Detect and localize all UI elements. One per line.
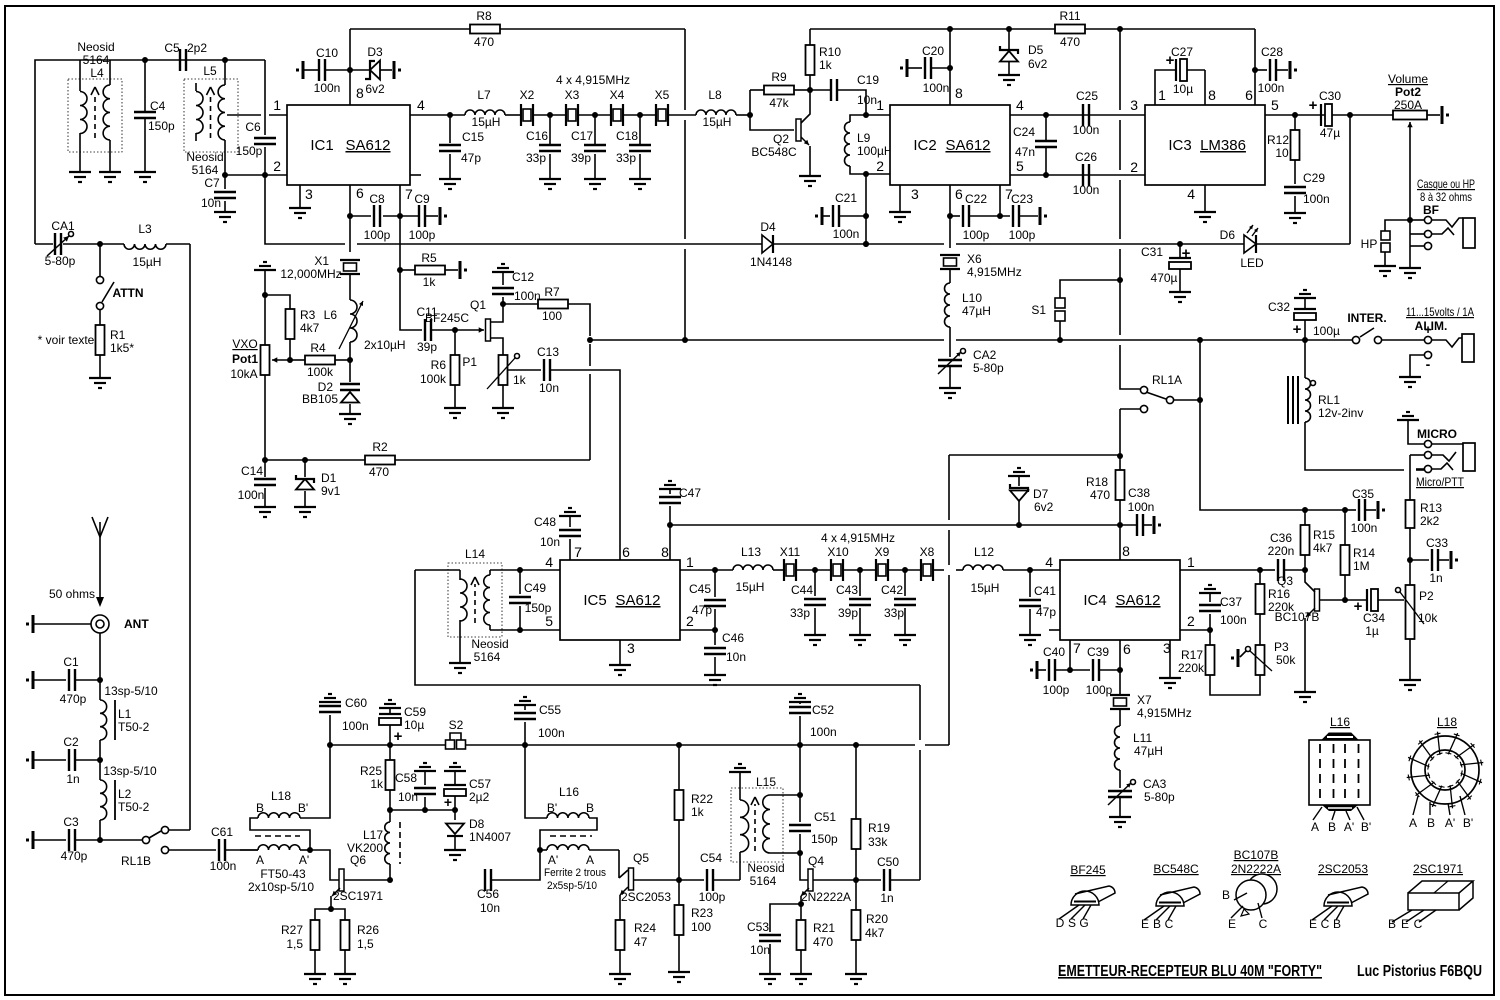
svg-text:8: 8 [1122,543,1130,559]
svg-text:L5: L5 [203,64,217,78]
svg-text:47n: 47n [1015,145,1035,159]
svg-text:C23: C23 [1011,192,1033,206]
svg-text:S: S [1068,916,1076,930]
svg-text:IC4: IC4 [1083,592,1106,609]
svg-text:B: B [1153,917,1161,931]
svg-text:33p: 33p [526,151,546,165]
svg-text:100p: 100p [963,228,990,242]
svg-text:100n: 100n [1303,192,1330,206]
svg-text:T50-2: T50-2 [118,720,150,734]
svg-text:1µ: 1µ [1365,624,1379,638]
svg-text:C4: C4 [150,99,166,113]
svg-text:33k: 33k [868,835,888,849]
svg-text:C43: C43 [836,583,858,597]
svg-text:A': A' [1344,820,1354,834]
svg-text:L4: L4 [90,66,104,80]
svg-text:A': A' [1445,816,1455,830]
svg-text:100µH: 100µH [857,144,893,158]
svg-text:C1: C1 [63,655,79,669]
svg-text:C52: C52 [812,703,834,717]
svg-text:MICRO: MICRO [1417,427,1457,441]
svg-text:C40: C40 [1043,645,1065,659]
svg-text:C21: C21 [835,191,857,205]
svg-text:R15: R15 [1313,528,1335,542]
svg-text:4: 4 [417,97,425,113]
svg-text:BC107B: BC107B [1234,848,1279,862]
svg-text:D4: D4 [760,220,776,234]
svg-text:A: A [1409,816,1417,830]
svg-text:1k5*: 1k5* [110,341,134,355]
svg-text:10k: 10k [1418,611,1438,625]
svg-text:Pot1: Pot1 [232,352,258,366]
svg-text:R5: R5 [421,251,437,265]
svg-text:12v-2inv: 12v-2inv [1318,406,1363,420]
svg-text:47µ: 47µ [1320,126,1340,140]
svg-text:E: E [1401,917,1409,931]
svg-text:R10: R10 [819,45,841,59]
svg-text:IC3: IC3 [1168,137,1191,154]
svg-text:100n: 100n [833,227,860,241]
svg-text:470: 470 [813,935,833,949]
svg-text:100n: 100n [1128,500,1155,514]
svg-text:10n: 10n [726,650,746,664]
svg-text:1k: 1k [370,777,384,791]
svg-text:Q1: Q1 [470,298,486,312]
svg-text:R1: R1 [110,328,126,342]
svg-text:2k2: 2k2 [1420,514,1440,528]
svg-text:100p: 100p [1009,228,1036,242]
svg-text:10n: 10n [857,93,877,107]
svg-text:R7: R7 [544,285,560,299]
svg-text:Micro/PTT: Micro/PTT [1416,475,1465,489]
svg-text:D5: D5 [1028,43,1044,57]
svg-text:B': B' [1361,820,1371,834]
svg-text:VK200: VK200 [347,841,383,855]
svg-text:BC548C: BC548C [751,145,797,159]
svg-text:L2: L2 [118,787,132,801]
svg-text:4,915MHz: 4,915MHz [1137,706,1192,720]
svg-text:R18: R18 [1086,475,1108,489]
svg-text:L17: L17 [363,828,383,842]
svg-text:8: 8 [661,544,669,560]
svg-text:39p: 39p [838,606,858,620]
svg-text:2SC1971: 2SC1971 [333,889,383,903]
svg-text:4 x 4,915MHz: 4 x 4,915MHz [556,73,630,87]
svg-text:C30: C30 [1319,89,1341,103]
svg-text:R6: R6 [431,358,447,372]
svg-text:5: 5 [1016,158,1024,174]
svg-text:D6: D6 [1220,228,1236,242]
svg-text:4,915MHz: 4,915MHz [967,265,1022,279]
svg-text:R22: R22 [691,792,713,806]
svg-text:C60: C60 [345,696,367,710]
svg-text:100n: 100n [923,81,950,95]
svg-text:B': B' [547,801,557,815]
svg-text:SA612: SA612 [615,592,660,609]
svg-text:C54: C54 [700,851,722,865]
svg-text:100p: 100p [364,228,391,242]
svg-text:1k: 1k [423,275,437,289]
svg-text:L10: L10 [962,291,982,305]
svg-text:D8: D8 [469,817,485,831]
svg-text:12,000MHz: 12,000MHz [280,267,341,281]
svg-text:C35: C35 [1352,487,1374,501]
svg-text:C46: C46 [722,631,744,645]
svg-text:C7: C7 [204,176,220,190]
svg-text:BF245C: BF245C [425,311,469,325]
svg-text:Q5: Q5 [633,851,649,865]
svg-text:CA1: CA1 [51,219,75,233]
svg-text:10n: 10n [750,943,770,957]
svg-text:47µH: 47µH [962,304,991,318]
svg-text:3: 3 [627,640,635,656]
svg-text:R13: R13 [1420,501,1442,515]
svg-text:A: A [586,853,594,867]
svg-text:L7: L7 [477,88,491,102]
svg-text:2: 2 [1130,159,1138,175]
svg-text:+: + [444,794,452,810]
svg-text:2: 2 [876,158,884,174]
svg-text:2SC2053: 2SC2053 [621,890,671,904]
svg-text:R26: R26 [357,923,379,937]
svg-text:3: 3 [1130,97,1138,113]
svg-text:1n: 1n [66,772,79,786]
svg-text:C: C [1414,917,1423,931]
svg-text:100p: 100p [409,228,436,242]
svg-text:C41: C41 [1034,584,1056,598]
svg-text:C13: C13 [537,345,559,359]
svg-text:R4: R4 [310,341,326,355]
svg-text:470: 470 [369,465,389,479]
svg-text:13sp-5/10: 13sp-5/10 [103,764,157,778]
svg-text:5: 5 [545,613,553,629]
svg-text:1: 1 [1158,87,1166,103]
svg-text:S2: S2 [449,718,464,732]
svg-text:1,5: 1,5 [357,937,374,951]
svg-text:2N2222A: 2N2222A [1231,862,1281,876]
svg-text:5164: 5164 [474,650,501,664]
svg-text:8: 8 [1208,87,1216,103]
svg-text:100n: 100n [1220,613,1247,627]
svg-text:Pot2: Pot2 [1395,85,1421,99]
svg-text:L12: L12 [974,545,994,559]
svg-text:3: 3 [305,186,313,202]
svg-text:8: 8 [356,85,364,101]
svg-text:4k7: 4k7 [1313,541,1333,555]
svg-text:2N2222A: 2N2222A [801,890,851,904]
svg-text:4 x 4,915MHz: 4 x 4,915MHz [821,531,895,545]
svg-text:Q3: Q3 [1277,574,1293,588]
svg-text:R16: R16 [1268,587,1290,601]
svg-text:A': A' [299,853,309,867]
svg-text:C56: C56 [477,887,499,901]
svg-text:1: 1 [273,97,281,113]
svg-text:2x10sp-5/10: 2x10sp-5/10 [248,880,314,894]
svg-text:L11: L11 [1133,731,1152,745]
svg-text:6: 6 [356,185,364,201]
svg-text:+: + [1354,598,1363,615]
svg-text:100n: 100n [314,81,341,95]
svg-text:470p: 470p [61,849,88,863]
svg-text:100n: 100n [538,726,565,740]
svg-text:C9: C9 [414,192,430,206]
svg-text:B: B [586,801,594,815]
svg-text:Neosid: Neosid [186,150,223,164]
svg-text:R11: R11 [1059,9,1080,23]
svg-text:5164: 5164 [83,53,110,67]
svg-text:+: + [1166,52,1175,69]
svg-text:13sp-5/10: 13sp-5/10 [104,684,158,698]
svg-text:470p: 470p [60,692,87,706]
svg-text:39p: 39p [417,340,437,354]
svg-text:C22: C22 [965,192,987,206]
svg-text:R20: R20 [866,912,888,926]
svg-text:2x10µH: 2x10µH [364,338,406,352]
svg-text:B: B [1222,888,1230,902]
svg-text:C3: C3 [63,815,79,829]
svg-text:100n: 100n [1258,81,1285,95]
svg-text:R27: R27 [281,923,303,937]
svg-text:C18: C18 [616,129,638,143]
svg-text:C25: C25 [1076,89,1098,103]
svg-text:Q4: Q4 [808,854,824,868]
svg-text:X9: X9 [875,545,890,559]
svg-text:C34: C34 [1363,611,1385,625]
svg-text:C12: C12 [512,270,534,284]
svg-text:1M: 1M [1353,559,1370,573]
svg-text:X4: X4 [610,88,625,102]
svg-text:Neosid: Neosid [747,861,784,875]
svg-text:C50: C50 [877,855,899,869]
svg-text:C8: C8 [369,192,385,206]
svg-text:C10: C10 [316,46,338,60]
svg-text:6: 6 [1123,641,1131,657]
svg-text:10n: 10n [480,901,500,915]
svg-text:7: 7 [1073,640,1081,656]
svg-text:R21: R21 [813,921,835,935]
svg-text:Q2: Q2 [773,132,789,146]
svg-text:C44: C44 [791,583,813,597]
svg-text:250A: 250A [1394,98,1422,112]
svg-text:B: B [256,801,264,815]
svg-text:D7: D7 [1033,487,1049,501]
svg-text:C: C [1321,917,1330,931]
svg-text:B: B [1427,816,1435,830]
svg-text:10n: 10n [201,196,221,210]
svg-text:100n: 100n [342,719,369,733]
svg-text:4: 4 [545,554,553,570]
svg-text:L18: L18 [1437,715,1457,729]
svg-text:R17: R17 [1181,648,1203,662]
svg-text:1,5: 1,5 [286,937,303,951]
svg-text:ALIM.: ALIM. [1415,319,1448,333]
svg-text:100n: 100n [1073,183,1100,197]
svg-text:A: A [1311,820,1319,834]
svg-text:L3: L3 [138,222,152,236]
svg-text:CA3: CA3 [1143,777,1167,791]
svg-text:BC548C: BC548C [1153,862,1199,876]
svg-text:47p: 47p [1036,605,1056,619]
svg-text:C55: C55 [539,703,561,717]
svg-text:1: 1 [686,554,694,570]
svg-text:HP: HP [1361,237,1378,251]
svg-text:1: 1 [1187,554,1195,570]
svg-text:2: 2 [273,158,281,174]
svg-text:Q6: Q6 [350,853,366,867]
svg-text:BC107B: BC107B [1275,610,1320,624]
svg-text:INTER.: INTER. [1347,311,1386,325]
svg-text:C38: C38 [1128,486,1150,500]
svg-text:7: 7 [405,186,413,202]
svg-text:50k: 50k [1276,653,1296,667]
svg-text:R12: R12 [1267,133,1289,147]
svg-text:33p: 33p [884,606,904,620]
svg-text:C33: C33 [1426,536,1448,550]
svg-text:470: 470 [1060,35,1080,49]
svg-text:100n: 100n [210,859,237,873]
svg-text:C24: C24 [1013,125,1035,139]
svg-text:C57: C57 [469,777,491,791]
svg-text:R23: R23 [691,906,713,920]
svg-text:X2: X2 [520,88,535,102]
svg-text:8 à 32 ohms: 8 à 32 ohms [1420,190,1472,204]
svg-text:FT50-43: FT50-43 [260,867,306,881]
svg-text:D: D [1056,916,1065,930]
svg-text:100: 100 [691,920,711,934]
svg-text:C48: C48 [534,515,556,529]
svg-text:E: E [1228,917,1236,931]
svg-text:C61: C61 [211,825,233,839]
svg-text:T50-2: T50-2 [118,800,150,814]
svg-text:C53: C53 [747,920,769,934]
svg-text:150p: 150p [236,144,263,158]
svg-text:BF245: BF245 [1070,863,1106,877]
svg-text:D3: D3 [367,45,383,59]
svg-text:L16: L16 [559,785,579,799]
svg-text:100p: 100p [1086,683,1113,697]
svg-text:CA2: CA2 [973,348,997,362]
svg-text:-: - [1426,356,1431,372]
svg-text:1k: 1k [513,373,527,387]
svg-text:4k7: 4k7 [865,926,885,940]
svg-text:10µ: 10µ [404,718,424,732]
svg-text:R19: R19 [868,821,890,835]
svg-text:15µH: 15µH [472,115,501,129]
svg-text:47: 47 [634,935,648,949]
svg-text:X7: X7 [1137,693,1152,707]
svg-text:47k: 47k [769,96,789,110]
svg-text:100n: 100n [1351,521,1378,535]
svg-text:220k: 220k [1178,661,1205,675]
svg-text:L8: L8 [708,88,722,102]
svg-text:50 ohms: 50 ohms [49,587,95,601]
svg-text:L1: L1 [118,707,132,721]
svg-text:X1: X1 [314,254,329,268]
svg-text:C15: C15 [462,130,484,144]
svg-text:C39: C39 [1087,645,1109,659]
svg-text:X10: X10 [827,545,849,559]
svg-text:C45: C45 [689,582,711,596]
svg-text:5: 5 [1271,97,1279,113]
svg-text:39p: 39p [571,151,591,165]
svg-text:LM386: LM386 [1200,137,1246,154]
svg-text:* voir texte: * voir texte [38,333,95,347]
svg-text:1n: 1n [1429,571,1442,585]
svg-text:470: 470 [474,35,494,49]
svg-text:C51: C51 [814,810,836,824]
svg-text:10kA: 10kA [230,367,257,381]
svg-text:SA612: SA612 [1115,592,1160,609]
svg-text:EMETTEUR-RECEPTEUR BLU 40M "FO: EMETTEUR-RECEPTEUR BLU 40M "FORTY" [1058,963,1322,980]
svg-text:100k: 100k [307,365,334,379]
svg-text:C42: C42 [881,583,903,597]
svg-text:L6: L6 [324,308,338,322]
svg-text:7: 7 [574,544,582,560]
svg-text:6v2: 6v2 [365,82,385,96]
svg-text:47p: 47p [692,603,712,617]
svg-text:IC1: IC1 [310,137,333,154]
svg-text:R3: R3 [300,308,316,322]
svg-text:X8: X8 [920,545,935,559]
svg-text:1N4148: 1N4148 [750,255,792,269]
svg-text:150p: 150p [811,832,838,846]
svg-text:+: + [1293,321,1302,338]
svg-text:C17: C17 [571,129,593,143]
svg-text:C: C [1259,917,1268,931]
svg-text:100n: 100n [514,289,541,303]
svg-text:Luc Pistorius F6BQU: Luc Pistorius F6BQU [1357,963,1482,980]
svg-text:100n: 100n [1073,123,1100,137]
svg-text:6: 6 [622,544,630,560]
svg-text:R25: R25 [360,764,382,778]
svg-text:C59: C59 [404,705,426,719]
svg-text:+: + [1182,245,1191,262]
svg-text:150p: 150p [525,601,552,615]
svg-text:C29: C29 [1303,171,1325,185]
svg-text:E: E [1309,917,1317,931]
svg-text:C19: C19 [857,73,879,87]
svg-text:2SC2053: 2SC2053 [1318,862,1368,876]
svg-text:220n: 220n [1268,544,1295,558]
svg-text:2p2: 2p2 [187,41,207,55]
svg-text:R24: R24 [634,921,656,935]
svg-text:3: 3 [911,186,919,202]
svg-text:C14: C14 [241,464,263,478]
svg-text:8: 8 [955,85,963,101]
svg-text:ANT: ANT [124,617,149,631]
svg-text:X5: X5 [655,88,670,102]
svg-text:2SC1971: 2SC1971 [1413,862,1463,876]
svg-text:P3: P3 [1274,640,1289,654]
svg-text:X11: X11 [780,545,801,559]
svg-text:C2: C2 [63,735,79,749]
svg-text:5-80p: 5-80p [45,254,76,268]
svg-text:6v2: 6v2 [1028,57,1048,71]
svg-text:RL1A: RL1A [1152,373,1182,387]
svg-text:100p: 100p [699,890,726,904]
svg-text:+: + [394,728,403,745]
svg-text:10n: 10n [398,790,418,804]
svg-text:L9: L9 [857,131,871,145]
svg-text:B: B [1328,820,1336,834]
svg-text:Neosid: Neosid [471,637,508,651]
svg-text:470µ: 470µ [1151,271,1178,285]
svg-text:RL1: RL1 [1318,393,1340,407]
svg-text:100n: 100n [810,725,837,739]
svg-text:B: B [1388,917,1396,931]
svg-text:SA612: SA612 [945,137,990,154]
svg-text:P2: P2 [1419,589,1434,603]
